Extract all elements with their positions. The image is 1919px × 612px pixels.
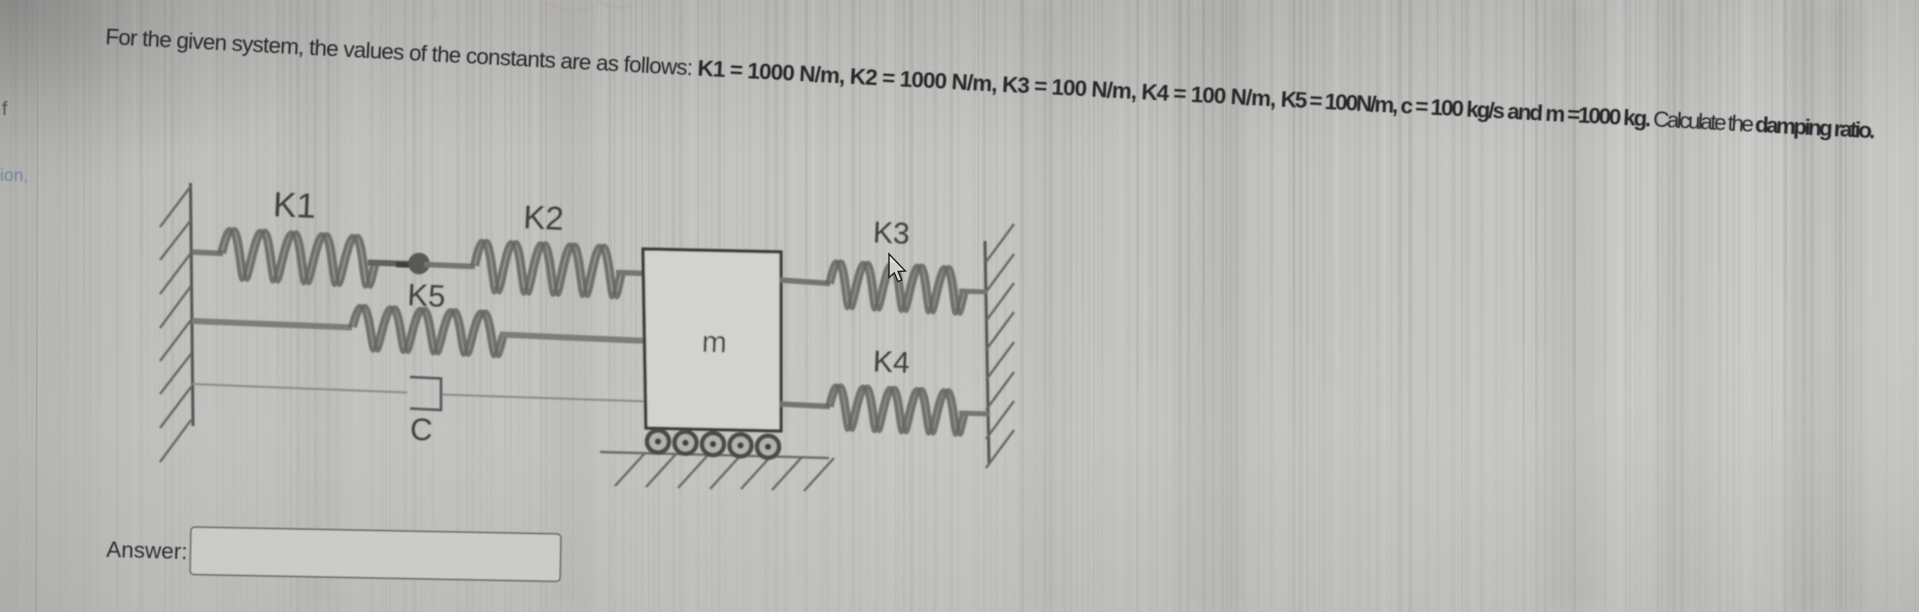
wire K5 to mass (500, 335, 648, 342)
wire node to spring K2 (424, 265, 475, 267)
wire mass to spring K3 (780, 280, 830, 284)
ground line under rollers (600, 452, 829, 458)
right wall hatching (986, 224, 1014, 468)
wire K4 to wall (959, 413, 990, 414)
wire K2 to mass (616, 273, 648, 274)
spring K2 (472, 241, 619, 297)
spring K3 (827, 261, 962, 313)
left wall hatching (160, 186, 191, 462)
pink scribbles top (432, 1, 632, 18)
wire damper to mass (442, 395, 648, 402)
roller wheel 4 under mass (730, 434, 752, 456)
damper C cylinder (410, 377, 441, 410)
diagram (160, 183, 1014, 491)
spring K1 (219, 229, 373, 287)
mouse cursor (889, 254, 905, 282)
spring K5 (350, 306, 501, 356)
wire K1 to node (368, 263, 412, 265)
Answer input box (190, 527, 561, 581)
roller wheel 2 under mass (675, 432, 697, 454)
spring K4 (827, 385, 962, 434)
roller wheel 5 under mass (757, 436, 779, 458)
roller wheel 1 under mass (647, 431, 669, 453)
mass m block (643, 249, 781, 431)
left wall (191, 183, 194, 426)
wire mass to spring K4 (780, 404, 830, 407)
right wall (985, 241, 989, 464)
problem statement text (105, 24, 1875, 143)
wire wall to spring K5 (192, 321, 352, 328)
sidebar divider line (36, 0, 38, 612)
wire wall to spring K1 (192, 252, 223, 254)
wire wall to damper (192, 384, 407, 393)
roller wheel 3 under mass (702, 433, 724, 455)
wire K3 to wall (959, 291, 987, 292)
node junction dot (396, 262, 410, 268)
ground hatching (615, 453, 834, 491)
